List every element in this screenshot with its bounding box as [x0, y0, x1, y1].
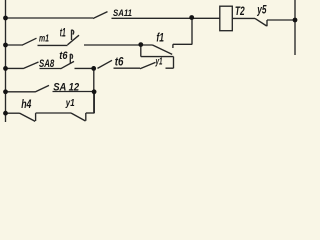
wire row4 left — [6, 91, 36, 93]
left bus — [5, 0, 7, 122]
node right bus — [293, 18, 298, 23]
contact m1 — [22, 38, 37, 45]
contact y1 — [140, 62, 156, 68]
contact f1 — [153, 44, 173, 54]
wire t6 to node — [75, 67, 94, 69]
wire row3 left — [6, 67, 24, 69]
svg-text:y1: y1 — [155, 55, 163, 67]
wire riser f1 to row1 — [191, 18, 193, 45]
wire t1 to node — [84, 44, 153, 46]
wire under t6 — [114, 67, 141, 69]
svg-text:t6: t6 — [115, 54, 124, 68]
svg-text:t6: t6 — [59, 50, 68, 62]
wire f1 to riser — [173, 43, 192, 45]
wire row1 mid — [112, 17, 220, 19]
contact t6 second — [98, 60, 113, 68]
wire row5 left — [6, 112, 20, 114]
svg-text:T2: T2 — [235, 4, 245, 18]
wire riser row5 to row4 — [93, 92, 95, 113]
svg-text:t1: t1 — [60, 26, 66, 40]
right bus — [294, 0, 296, 55]
wire y5 to right bus — [267, 19, 295, 21]
svg-text:y1: y1 — [65, 97, 75, 109]
wire m1 to t1 — [38, 44, 68, 46]
wire branch node down — [140, 45, 142, 57]
wire SA12 right — [53, 91, 95, 93]
wire branch down to y1 — [166, 57, 174, 69]
wire T2 to y5 — [232, 17, 255, 19]
svg-text:SA8: SA8 — [39, 58, 55, 70]
svg-text:y5: y5 — [257, 5, 267, 17]
contact y1 lower — [71, 113, 86, 121]
wire row2 left — [6, 44, 23, 46]
contact h4 — [20, 113, 36, 121]
node row2-branch — [138, 42, 143, 47]
contact t1 — [68, 30, 80, 45]
node row1-f1 — [189, 15, 194, 20]
wire y1 to riser — [86, 112, 95, 114]
svg-text:h4: h4 — [21, 97, 32, 111]
node row1-bus — [3, 16, 8, 21]
node row4-right — [92, 89, 97, 94]
node row2-bus — [3, 43, 8, 48]
wire branch horizontal — [141, 56, 174, 58]
wire row1 left — [6, 17, 94, 19]
node row5-bus — [3, 111, 8, 116]
coil T2 — [220, 6, 233, 31]
contact t6 — [61, 54, 75, 69]
svg-text:m1: m1 — [39, 34, 49, 45]
contact SA8 — [23, 62, 39, 69]
svg-text:SA11: SA11 — [113, 8, 132, 19]
wire vertical node down — [93, 68, 95, 113]
node row3-vertical — [91, 66, 96, 71]
wire SA8 to t6 — [40, 68, 62, 70]
switch SA12 — [35, 85, 49, 92]
contact y5 — [255, 18, 267, 26]
node row3-bus — [3, 66, 8, 71]
svg-text:SA 12: SA 12 — [53, 81, 79, 93]
svg-text:f1: f1 — [156, 31, 164, 45]
wire h4 to y1 — [36, 112, 71, 114]
switch SA11 — [93, 12, 108, 19]
node row4-bus — [3, 89, 8, 94]
